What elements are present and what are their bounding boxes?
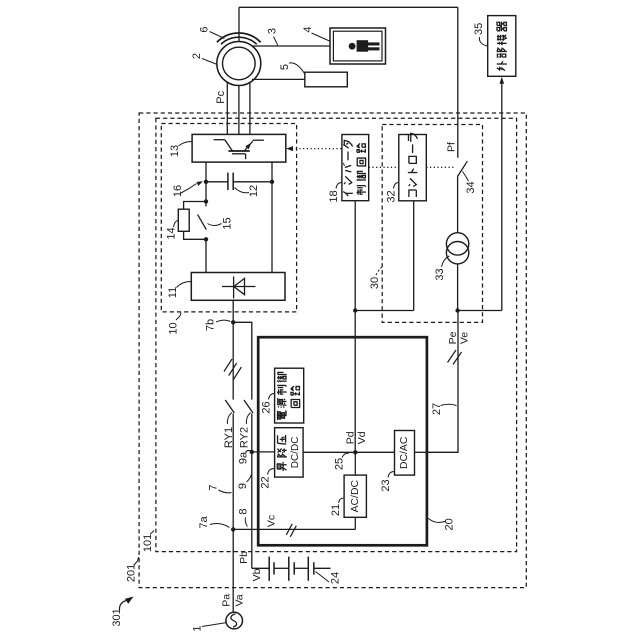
wire 7b to RY1 [232,322,234,399]
svg-text:25: 25 [334,458,346,470]
wire node to external device lead [458,310,502,312]
svg-text:15: 15 [222,217,234,229]
node 16 left [204,180,208,184]
svg-text:6: 6 [199,26,211,32]
svg-text:Vb: Vb [251,568,263,581]
svg-text:14: 14 [166,227,178,239]
phase marks [224,359,232,372]
wire 5 (coil to box 5) [252,78,305,80]
svg-text:Pb: Pb [238,551,250,564]
person icon [349,43,356,50]
svg-text:27: 27 [431,403,443,415]
svg-text:5: 5 [279,64,291,70]
power control circuit 26 box [275,368,304,423]
wire node Pd down to AC/DC 21 [354,452,356,475]
bed unit 4 inner [333,31,382,61]
wire coil top lead [238,7,240,42]
svg-text:21: 21 [330,504,342,516]
capacitor 12 [227,173,229,190]
svg-text:26: 26 [261,401,273,413]
svg-text:20: 20 [444,518,456,530]
resonant coil 2 [217,42,261,86]
arrow 16 [197,181,204,186]
slash marks Pe [448,350,457,363]
wire inverter left lead [205,162,207,182]
rectifier 11 diode [222,286,256,288]
inverter control circuit 18 text [343,191,348,196]
wire inverter right lead [271,162,273,182]
svg-text:32: 32 [386,190,398,202]
dashed box 30 (control unit) [382,125,482,323]
inverter 13 transistor [214,139,225,141]
svg-text:24: 24 [330,572,342,584]
svg-text:35: 35 [473,23,485,35]
switch 15 lever [198,215,207,230]
svg-text:AC/DC: AC/DC [350,480,361,513]
svg-text:13: 13 [169,145,181,157]
relay RY2 lever [244,400,253,413]
svg-text:101: 101 [142,534,154,552]
svg-text:201: 201 [126,564,138,582]
svg-text:7b: 7b [205,319,217,331]
AC power source 1 [226,612,243,629]
svg-text:33: 33 [434,268,446,280]
svg-text:Vc: Vc [266,515,278,527]
wire 3 (coil to bed) [252,45,330,47]
svg-text:10: 10 [168,322,180,334]
wire capacitor to node [233,181,272,183]
node top [204,199,208,203]
svg-text:34: 34 [465,181,477,193]
wire node16 down [205,182,207,202]
svg-text:Pc: Pc [215,90,227,103]
wire to rectifier 11 [205,239,207,272]
wire 7b branch [233,322,252,399]
svg-text:9a: 9a [238,451,250,464]
bed unit 4 outer [330,28,386,64]
svg-text:12: 12 [248,185,260,197]
resistor 14 [178,209,189,231]
controller 32 text [409,190,416,197]
wire 34 to sensor 33 [457,176,459,233]
node below 18 [353,308,357,312]
external device 35 text [497,68,500,70]
wire 18 to node Pd [354,311,356,453]
svg-text:DC/AC: DC/AC [399,436,410,469]
svg-text:23: 23 [380,479,392,491]
wire RY2 to node 9a [251,414,253,452]
wire 7a to source [232,529,234,612]
node below 33 [455,308,459,312]
node bottom [204,237,208,241]
wire top horizontal [239,6,458,8]
svg-text:9: 9 [237,483,249,489]
svg-text:22: 22 [260,476,272,488]
wire RY1 to 7a [232,414,234,530]
current sensor 33 [446,233,468,255]
switch 34 lever [458,161,468,176]
svg-text:301: 301 [111,608,123,626]
resistor 14 top lead [184,202,206,210]
relay RY1 lever [225,400,234,413]
wire battery line [252,567,269,569]
dotted line 18 to 32 [369,166,399,168]
wire node Pd to DC/AC 23 [355,451,394,453]
DC/AC inverter 23 box [395,431,415,476]
svg-text:8: 8 [238,508,250,514]
node Pd [353,450,357,454]
svg-text:Vd: Vd [356,431,368,444]
wire right side down [271,182,273,273]
dashed box 201 (power feeding system) [139,113,526,588]
wire right vertical to switch 34 [457,7,459,158]
buck-boost DC/DC 22 box [275,428,304,477]
wire 18 down [354,201,356,311]
dotted control line to inverter 13 [292,148,342,150]
wire DC/DC 22 to node Pd [303,451,355,453]
svg-text:30: 30 [369,277,381,289]
external device 35 [488,16,516,77]
battery 24 plates [268,557,270,581]
buck-boost DC/DC 22 text [277,464,281,469]
wire AC/DC 21 bottom to Vc line [354,517,356,529]
svg-text:Pe: Pe [447,331,459,344]
wire sensor 33 down [457,264,459,311]
switch 15 stub [205,202,207,207]
node 7a [231,527,235,531]
svg-text:7: 7 [208,484,220,490]
rectifier 11 box [191,273,285,301]
inverter control circuit 18 box [342,135,369,201]
svg-text:11: 11 [167,287,179,298]
wire rectifier to node 7b [232,300,234,322]
svg-text:Pa: Pa [220,594,232,607]
svg-text:3: 3 [267,28,279,34]
svg-text:Pf: Pf [445,142,457,152]
svg-text:Ve: Ve [459,332,471,344]
svg-text:4: 4 [302,26,314,32]
wire 27 [427,312,458,453]
svg-text:7a: 7a [198,516,210,529]
power source unit 20 box [258,337,427,545]
node 7b [231,320,235,324]
wire DC/AC 23 to edge [415,451,427,453]
node right [270,180,274,184]
wire coil bottom leads [226,82,228,134]
inverter 13 box [192,134,286,162]
dashed box 10 (inverter unit) [161,124,296,312]
controller 32 box [399,135,427,201]
wire node to capacitor [206,181,228,183]
wire to external device [501,83,503,311]
dashed box 101 (power feeding device) [156,118,517,551]
slash marks Vc [286,524,292,535]
box 5 [305,72,348,87]
power control circuit 26 text [277,411,279,420]
svg-text:18: 18 [328,190,340,202]
dotted line 32 to switch 34 [426,166,455,168]
wire 32 down [413,201,415,311]
node 9a [250,450,254,454]
wire 9a down to battery line [251,452,253,568]
svg-text:RY2: RY2 [239,427,251,448]
svg-text:Va: Va [233,594,245,606]
shield arc 6 [217,33,261,42]
wire 9a to DC/DC 22 [252,451,275,453]
wire node to controller corner [355,310,414,312]
resistor 14 bottom lead [184,231,206,239]
svg-text:2: 2 [191,53,203,59]
wire battery segments [274,567,289,569]
svg-text:16: 16 [172,185,184,197]
svg-text:1: 1 [192,625,204,631]
AC/DC converter 21 box [344,475,366,517]
svg-text:DC/DC: DC/DC [290,437,301,469]
wire Vc line [233,528,355,530]
